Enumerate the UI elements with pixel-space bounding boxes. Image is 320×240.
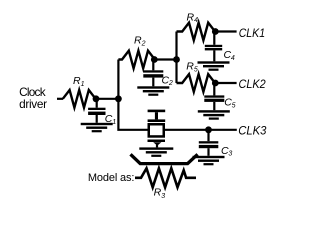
ground for C4 xyxy=(198,61,230,70)
svg-text:4: 4 xyxy=(231,55,235,62)
wire: riser node B up to R2 xyxy=(117,60,119,99)
net label CLK3 xyxy=(238,124,266,138)
socket ground stem xyxy=(156,145,158,148)
resistor R2 xyxy=(118,51,154,69)
socket box on CLK3 line xyxy=(149,124,164,136)
label C2 xyxy=(162,74,173,87)
svg-text:5: 5 xyxy=(194,66,198,73)
label R5 xyxy=(186,61,198,74)
wire: clock driver output to R1 xyxy=(57,98,63,100)
label R4 xyxy=(187,11,199,24)
svg-text:2: 2 xyxy=(141,40,146,47)
label C4 xyxy=(224,49,235,62)
wire: to CLK2 xyxy=(215,82,236,84)
wire: R2 output to branch node xyxy=(154,58,176,60)
svg-text:3: 3 xyxy=(228,151,232,158)
svg-text:3: 3 xyxy=(161,193,165,200)
node B junction dot xyxy=(115,95,122,102)
svg-text:CLK1: CLK1 xyxy=(239,26,265,40)
wire: to CLK1 xyxy=(215,30,236,32)
label C3 xyxy=(221,145,232,158)
node: CLK2 junction dot xyxy=(212,80,219,87)
svg-text:CLK3: CLK3 xyxy=(238,124,266,138)
socket base bar xyxy=(148,140,166,143)
wire: socket to CLK3 xyxy=(165,129,237,131)
label C5 xyxy=(224,97,235,110)
brace (model grouping dish) xyxy=(131,154,198,163)
ground for C2 xyxy=(137,86,169,95)
label R2 xyxy=(134,35,146,48)
svg-text:4: 4 xyxy=(194,17,198,24)
wire: node B down and right to socket box xyxy=(118,99,147,130)
svg-text:5: 5 xyxy=(232,102,236,109)
branch node junction dot xyxy=(173,56,180,63)
capacitor C3 xyxy=(199,130,219,156)
svg-text:CLK2: CLK2 xyxy=(239,77,266,91)
ground for C1 xyxy=(81,123,113,133)
capacitor C2 xyxy=(143,60,163,87)
capacitor above socket (I-beam symbol) xyxy=(148,110,166,122)
svg-text:Model as:: Model as: xyxy=(88,172,134,184)
resistor R1 xyxy=(63,90,96,108)
wire: branch riser R4 to R5 xyxy=(175,32,177,84)
clock driver label xyxy=(19,85,47,111)
model as label xyxy=(88,172,134,184)
resistor R3 xyxy=(135,168,196,187)
ground for C5 xyxy=(198,110,230,120)
label R1 xyxy=(73,75,85,88)
label R3 xyxy=(154,187,166,201)
node: CLK3 junction dot xyxy=(205,126,212,133)
ground for socket xyxy=(139,147,173,157)
capacitor C5 xyxy=(204,83,224,110)
svg-text:driver: driver xyxy=(19,97,47,111)
svg-text:1: 1 xyxy=(81,81,85,88)
node A junction dot xyxy=(93,95,100,102)
label C1 xyxy=(105,113,116,126)
node: R2 output junction dot xyxy=(151,56,158,63)
capacitor C4 xyxy=(205,32,222,62)
capacitor C1 xyxy=(88,99,105,123)
resistor R5 xyxy=(177,74,216,92)
wire: node A to node B xyxy=(96,98,118,100)
ground for C3 xyxy=(193,156,225,166)
net label CLK2 xyxy=(239,77,266,91)
node: CLK1 junction dot xyxy=(212,28,219,35)
resistor R4 xyxy=(177,23,216,41)
net label CLK1 xyxy=(239,26,265,40)
svg-text:2: 2 xyxy=(168,80,173,87)
svg-text:1: 1 xyxy=(112,119,116,126)
socket contact arrow xyxy=(153,142,161,145)
